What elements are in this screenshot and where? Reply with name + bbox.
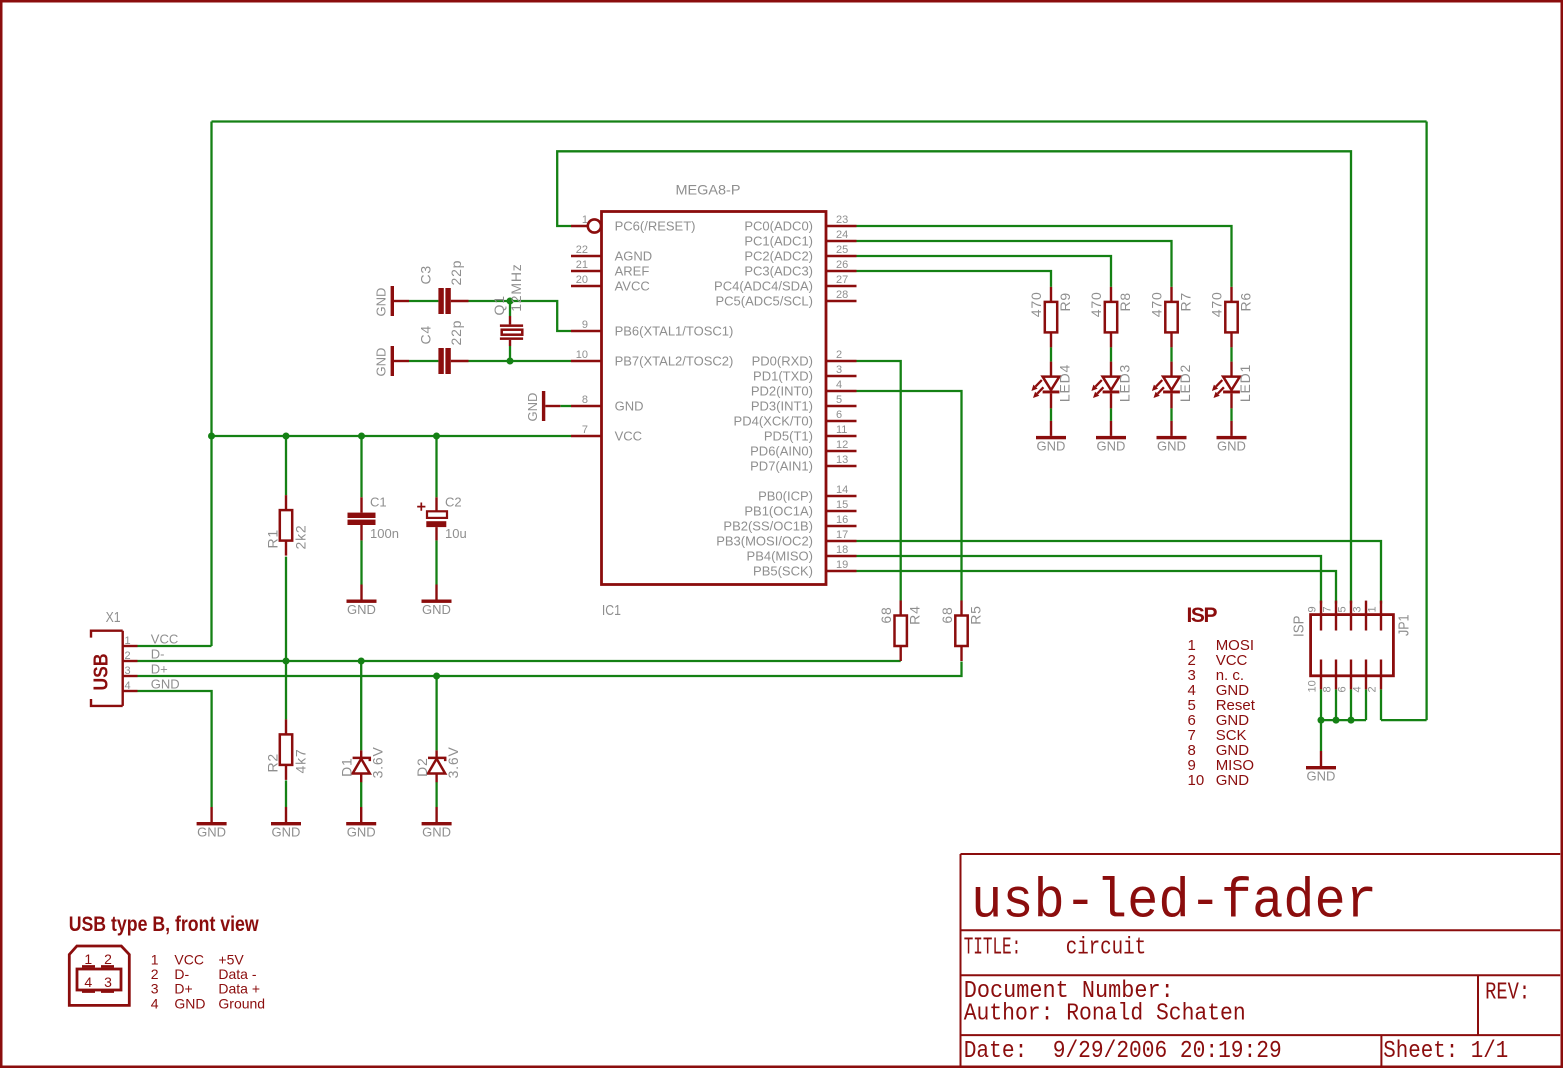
svg-text:C2: C2 <box>445 495 462 510</box>
IC1 pin 10 PB7(XTAL2/TOSC2) <box>571 349 733 369</box>
svg-text:+5V: +5V <box>218 951 244 967</box>
svg-text:GND: GND <box>1307 769 1336 784</box>
wire D- line <box>138 660 901 662</box>
title block TITLE row <box>964 935 1146 962</box>
ISP legend pin 4 GND <box>1188 682 1250 699</box>
JP1 pin 3 <box>1352 601 1367 631</box>
wire VCC top rail <box>212 120 1427 122</box>
svg-text:4: 4 <box>84 974 92 990</box>
svg-text:2: 2 <box>125 650 131 662</box>
wire C4 to XTAL2 pin10 <box>469 360 572 362</box>
svg-text:X1: X1 <box>106 609 121 626</box>
wire PD0 pin2 to R4 <box>857 361 901 601</box>
svg-text:D+: D+ <box>151 662 168 677</box>
wire D1 to GND <box>360 782 362 807</box>
svg-text:470: 470 <box>1028 291 1044 317</box>
wire VCC ISP pin2 drop <box>1380 689 1382 720</box>
svg-text:AVCC: AVCC <box>615 279 650 294</box>
crystal Q1 12MHz <box>491 263 524 346</box>
svg-text:GND: GND <box>347 825 376 840</box>
IC1 pin 8 GND <box>571 394 643 414</box>
JP1 pin 4 <box>1352 660 1367 693</box>
wire VCC to C1 <box>360 436 362 497</box>
junction crystal top <box>507 298 514 305</box>
IC1 pin 3 PD1(TXD) <box>753 364 856 384</box>
svg-text:TITLE:: TITLE: <box>964 935 1022 962</box>
ground IC pin8 gnd <box>525 391 561 422</box>
IC1 pin 6 PD4(XCK/T0) <box>734 409 857 429</box>
svg-text:PC5(ADC5/SCL): PC5(ADC5/SCL) <box>715 294 813 309</box>
svg-text:3: 3 <box>836 364 842 376</box>
resistor R9 <box>1028 287 1073 348</box>
svg-text:3.6V: 3.6V <box>445 746 461 778</box>
ISP legend pin 8 GND <box>1188 742 1250 759</box>
svg-text:19: 19 <box>836 559 848 571</box>
IC1 pin 18 PB4(MISO) <box>747 544 857 564</box>
USB legend pin 1 VCC <box>151 951 245 967</box>
USB legend pin 4 GND <box>151 995 265 1011</box>
junction VCC rail left <box>208 433 215 440</box>
svg-text:6: 6 <box>1337 686 1349 692</box>
JP1 pin 9 <box>1307 601 1322 631</box>
junction crystal bottom <box>507 358 514 365</box>
JP1 pin 8 <box>1322 660 1337 693</box>
ground C3 gnd <box>374 286 410 317</box>
svg-text:PB2(SS/OC1B): PB2(SS/OC1B) <box>723 519 813 534</box>
svg-text:PC3(ADC3): PC3(ADC3) <box>744 264 813 279</box>
svg-text:LED3: LED3 <box>1117 364 1133 402</box>
svg-text:20: 20 <box>576 274 588 286</box>
svg-text:21: 21 <box>576 259 588 271</box>
svg-text:11: 11 <box>836 424 847 436</box>
svg-text:16: 16 <box>836 514 848 526</box>
svg-text:C1: C1 <box>370 495 387 510</box>
svg-text:1: 1 <box>1367 606 1379 612</box>
svg-text:PB6(XTAL1/TOSC1): PB6(XTAL1/TOSC1) <box>615 324 734 339</box>
wire PC3 pin26 to R9 <box>857 271 1052 287</box>
wire R2 to GND <box>285 780 287 807</box>
title block frame <box>961 854 1561 1066</box>
junction rail R1 <box>283 433 290 440</box>
svg-text:PD2(INT0): PD2(INT0) <box>751 384 813 399</box>
resistor R8 <box>1088 287 1133 348</box>
IC1 pin 5 PD3(INT1) <box>751 394 857 414</box>
svg-text:PB5(SCK): PB5(SCK) <box>753 564 813 579</box>
wire VCC to C2 <box>435 436 437 497</box>
svg-text:C4: C4 <box>418 325 434 345</box>
svg-text:Ground: Ground <box>218 995 265 1011</box>
resistor R2 <box>265 719 309 780</box>
svg-text:27: 27 <box>836 274 848 286</box>
svg-text:470: 470 <box>1088 291 1104 317</box>
svg-text:2k2: 2k2 <box>293 525 309 550</box>
ground D1 gnd <box>346 807 376 840</box>
wire C1 to GND <box>360 540 362 584</box>
wire RESET pin1 to ISP pin5 <box>557 151 1351 603</box>
IC1 pin 24 PC1(ADC1) <box>744 229 856 249</box>
IC1 pin 25 PC2(ADC2) <box>744 244 856 264</box>
wire VCC to ISP pin2 <box>1381 719 1427 721</box>
wire R8 to LED3 <box>1110 347 1112 361</box>
svg-text:R9: R9 <box>1057 292 1073 312</box>
svg-text:LED2: LED2 <box>1177 364 1193 402</box>
IC1 pin 1 PC6(/RESET) <box>571 214 696 234</box>
ISP legend pin 10 GND <box>1188 772 1250 789</box>
svg-text:AREF: AREF <box>615 264 650 279</box>
svg-text:2: 2 <box>104 951 112 967</box>
ground LED4 gnd <box>1036 421 1066 454</box>
svg-text:26: 26 <box>836 259 848 271</box>
svg-text:12MHz: 12MHz <box>508 263 524 311</box>
svg-text:PB4(MISO): PB4(MISO) <box>747 549 813 564</box>
svg-text:GND: GND <box>1097 438 1126 453</box>
svg-text:PD6(AIN0): PD6(AIN0) <box>750 444 813 459</box>
svg-text:28: 28 <box>836 289 848 301</box>
wire XTAL1 crystal top <box>509 301 511 316</box>
junction rail C2 <box>433 433 440 440</box>
svg-text:3: 3 <box>151 981 159 997</box>
svg-text:4: 4 <box>1352 686 1364 692</box>
svg-text:PD7(AIN1): PD7(AIN1) <box>750 459 813 474</box>
svg-text:VCC: VCC <box>174 951 204 967</box>
svg-text:2: 2 <box>151 966 159 982</box>
LED LED4 <box>1031 362 1072 409</box>
junction D+ D2 <box>433 673 440 680</box>
wire R2 top <box>285 661 287 719</box>
svg-text:24: 24 <box>836 229 848 241</box>
svg-text:23: 23 <box>836 214 848 226</box>
svg-text:D+: D+ <box>174 981 192 997</box>
svg-text:R1: R1 <box>265 529 281 549</box>
wire D1 top <box>360 661 362 750</box>
svg-text:GND: GND <box>197 825 226 840</box>
wire LED3 to GND <box>1110 408 1112 421</box>
wire D+ line <box>138 662 962 677</box>
svg-text:22p: 22p <box>448 260 464 286</box>
resistor R4 <box>878 601 923 662</box>
svg-text:8: 8 <box>582 394 588 406</box>
JP1 pin 1 <box>1367 601 1382 631</box>
ISP legend pin 9 MISO <box>1188 757 1255 774</box>
svg-text:12: 12 <box>836 439 848 451</box>
svg-text:D-: D- <box>174 966 189 982</box>
IC1 pin 28 PC5(ADC5/SCL) <box>715 289 856 309</box>
IC1 pin 4 PD2(INT0) <box>751 379 857 399</box>
JP1 pin 7 <box>1322 601 1337 631</box>
junction ISP gnd 2 <box>1333 717 1340 724</box>
ground D2 gnd <box>422 807 452 840</box>
wire R7 to LED2 <box>1170 347 1172 361</box>
svg-text:ISP: ISP <box>1291 616 1308 638</box>
svg-text:22p: 22p <box>448 320 464 346</box>
svg-text:GND: GND <box>1037 438 1066 453</box>
svg-text:R6: R6 <box>1238 292 1254 312</box>
svg-text:GND: GND <box>1217 438 1246 453</box>
ISP legend pin 5 Reset <box>1188 697 1256 714</box>
IC1 pin 7 VCC <box>571 424 642 444</box>
junction ISP gnd 1 <box>1318 717 1325 724</box>
wire ISP pin6 drop <box>1350 689 1352 720</box>
svg-text:68: 68 <box>939 606 955 623</box>
resistor R6 <box>1209 287 1254 348</box>
svg-text:14: 14 <box>836 484 848 496</box>
ground ISP gnd <box>1306 751 1336 784</box>
svg-text:22: 22 <box>576 244 588 256</box>
IC1 pin 16 PB2(SS/OC1B) <box>723 514 856 534</box>
svg-text:3: 3 <box>125 665 131 677</box>
ground R2 gnd <box>271 807 301 840</box>
svg-text:Data +: Data + <box>218 981 260 997</box>
svg-text:Author: Ronald Schaten: Author: Ronald Schaten <box>964 1001 1246 1028</box>
svg-text:68: 68 <box>878 606 894 623</box>
X1 pin 2 D- <box>123 647 165 663</box>
svg-text:MEGA8-P: MEGA8-P <box>676 182 741 198</box>
svg-text:IC1: IC1 <box>602 602 621 619</box>
ground LED1 gnd <box>1217 421 1247 454</box>
svg-text:Sheet: 1/1: Sheet: 1/1 <box>1383 1038 1508 1065</box>
wire SCK pin19 to ISP7 <box>857 571 1337 604</box>
svg-text:GND: GND <box>174 995 205 1011</box>
svg-text:1: 1 <box>582 214 588 226</box>
wire GND to C3 <box>409 300 438 302</box>
ISP legend pin 2 VCC <box>1188 652 1248 669</box>
capacitor C4 22p <box>418 320 469 374</box>
wire MISO pin18 to ISP9 <box>857 556 1322 604</box>
svg-text:R4: R4 <box>907 605 923 625</box>
X1 pin 3 D+ <box>123 662 168 678</box>
svg-text:GND: GND <box>422 602 451 617</box>
svg-text:25: 25 <box>836 244 848 256</box>
svg-text:PB3(MOSI/OC2): PB3(MOSI/OC2) <box>716 534 813 549</box>
wire PD2 pin4 to R5 <box>857 391 962 601</box>
svg-text:LED4: LED4 <box>1057 364 1073 402</box>
svg-text:USB: USB <box>91 654 113 691</box>
svg-text:VCC: VCC <box>615 429 642 444</box>
junction D- D1 <box>358 658 365 665</box>
svg-text:GND: GND <box>374 288 389 317</box>
resistor R7 <box>1149 287 1194 348</box>
LED LED1 <box>1212 362 1253 409</box>
ISP legend pin 3 n. c. <box>1188 667 1245 684</box>
X1 pin 4 GND <box>123 677 180 693</box>
resistor R1 <box>265 495 309 555</box>
svg-text:6: 6 <box>836 409 842 421</box>
svg-text:1: 1 <box>151 951 159 967</box>
IC1 pin 17 PB3(MOSI/OC2) <box>716 529 856 549</box>
svg-text:circuit: circuit <box>1066 935 1147 962</box>
svg-text:GND: GND <box>525 393 540 422</box>
svg-text:Date: 9/29/2006 20:19:29: Date: 9/29/2006 20:19:29 <box>964 1038 1282 1065</box>
svg-text:3.6V: 3.6V <box>370 746 386 778</box>
wire GND to C4 <box>409 360 438 362</box>
JP1 pin 6 <box>1337 660 1352 693</box>
svg-text:LED1: LED1 <box>1237 364 1253 402</box>
svg-text:4: 4 <box>151 995 159 1011</box>
JP1 pin 2 <box>1367 660 1382 693</box>
svg-text:4: 4 <box>125 680 131 692</box>
junction ISP gnd 3 <box>1348 717 1355 724</box>
IC1 pin 13 PD7(AIN1) <box>750 454 856 474</box>
wire LED1 to GND <box>1230 408 1232 421</box>
LED LED2 <box>1152 362 1193 409</box>
wire R6 to LED1 <box>1230 347 1232 361</box>
svg-text:D-: D- <box>151 647 165 662</box>
svg-text:8: 8 <box>1322 686 1334 692</box>
IC1 pin 26 PC3(ADC3) <box>744 259 856 279</box>
svg-text:PB0(ICP): PB0(ICP) <box>758 489 813 504</box>
svg-text:USB type B, front view: USB type B, front view <box>69 913 260 936</box>
svg-text:D1: D1 <box>339 757 355 777</box>
svg-text:3: 3 <box>1352 606 1364 612</box>
svg-text:PB1(OC1A): PB1(OC1A) <box>744 504 813 519</box>
wire MOSI pin17 to ISP1 <box>857 541 1382 604</box>
wire R1 to D- line <box>285 557 287 661</box>
svg-text:7: 7 <box>1322 606 1334 612</box>
ISP header JP1 body <box>1291 615 1413 676</box>
svg-text:D2: D2 <box>414 757 430 777</box>
svg-text:10: 10 <box>1188 772 1205 789</box>
svg-text:470: 470 <box>1149 291 1165 317</box>
wire ISP GND bus <box>1321 719 1366 721</box>
svg-text:R8: R8 <box>1117 292 1133 312</box>
wire USB pin1 to VCC <box>138 645 212 647</box>
IC1 pin 11 PD5(T1) <box>764 424 857 444</box>
svg-text:GND: GND <box>1216 772 1250 789</box>
svg-text:1: 1 <box>84 951 92 967</box>
svg-text:PD4(XCK/T0): PD4(XCK/T0) <box>734 414 813 429</box>
ground C4 gnd <box>374 346 410 377</box>
ground USB shield gnd <box>197 807 227 840</box>
capacitor C2 10u <box>417 495 467 542</box>
ISP legend pin 7 SCK <box>1188 727 1247 744</box>
USB legend pin 2 D- <box>151 966 257 982</box>
IC1 pin 12 PD6(AIN0) <box>750 439 856 459</box>
svg-text:13: 13 <box>836 454 848 466</box>
ground C1 gnd <box>347 585 377 618</box>
svg-text:PC0(ADC0): PC0(ADC0) <box>744 219 813 234</box>
svg-text:R5: R5 <box>968 605 984 625</box>
svg-text:10u: 10u <box>445 526 467 541</box>
wire PC0 pin23 to R6 <box>857 226 1232 287</box>
wire PC1 pin24 to R7 <box>857 241 1172 287</box>
svg-text:470: 470 <box>1209 291 1225 317</box>
wire VCC right vertical <box>1425 122 1427 721</box>
IC1 pin 14 PB0(ICP) <box>758 484 856 504</box>
svg-text:ISP: ISP <box>1187 604 1218 627</box>
wire VCC to R1 <box>285 436 287 495</box>
svg-text:JP1: JP1 <box>1396 615 1413 637</box>
svg-text:AGND: AGND <box>615 249 653 264</box>
IC1 pin 21 AREF <box>571 259 649 279</box>
svg-text:Q1: Q1 <box>491 295 507 315</box>
wire R9 to LED4 <box>1050 347 1052 361</box>
svg-text:9: 9 <box>1307 606 1319 612</box>
wire ISP pin4 drop <box>1365 689 1367 720</box>
IC1 pin 22 AGND <box>571 244 652 264</box>
wire USB pin4 to GND <box>138 691 212 807</box>
wire D2 to GND <box>435 782 437 807</box>
svg-text:PD3(INT1): PD3(INT1) <box>751 399 813 414</box>
svg-text:GND: GND <box>615 399 644 414</box>
wire VCC left vertical <box>210 122 212 647</box>
ground C2 gnd <box>422 585 452 618</box>
capacitor C1 100n <box>348 495 399 542</box>
wire C3 to XTAL1 pin9 <box>469 301 572 331</box>
wire GND to IC pin8 <box>560 405 571 407</box>
IC1 pin 15 PB1(OC1A) <box>744 499 856 519</box>
IC1 pin 2 PD0(RXD) <box>752 349 857 369</box>
IC1 pin 20 AVCC <box>571 274 650 294</box>
svg-text:18: 18 <box>836 544 848 556</box>
svg-text:PD5(T1): PD5(T1) <box>764 429 813 444</box>
svg-text:7: 7 <box>582 424 588 436</box>
svg-text:R2: R2 <box>265 753 281 773</box>
IC1 pin 27 PC4(ADC4/SDA) <box>714 274 856 294</box>
svg-text:Data -: Data - <box>218 966 256 982</box>
wire C2 to GND <box>435 540 437 584</box>
IC1 pin 23 PC0(ADC0) <box>744 214 856 234</box>
IC1 pin 9 PB6(XTAL1/TOSC1) <box>571 319 733 339</box>
IC IC1 MEGA8-P body <box>602 182 827 620</box>
USB legend pin 3 D+ <box>151 981 260 997</box>
svg-text:GND: GND <box>347 602 376 617</box>
USB connector X1 <box>91 609 123 706</box>
svg-text:R7: R7 <box>1178 292 1194 312</box>
ground LED3 gnd <box>1096 421 1126 454</box>
svg-text:PC2(ADC2): PC2(ADC2) <box>744 249 813 264</box>
svg-text:REV:: REV: <box>1485 979 1530 1006</box>
wire PC2 pin25 to R8 <box>857 256 1112 287</box>
svg-text:17: 17 <box>836 529 848 541</box>
capacitor C3 22p <box>418 260 469 314</box>
svg-text:10: 10 <box>1307 680 1319 692</box>
svg-text:4k7: 4k7 <box>293 749 309 774</box>
wire ISP pin8 drop <box>1335 689 1337 720</box>
JP1 pin 5 <box>1337 601 1352 631</box>
svg-text:PC4(ADC4/SDA): PC4(ADC4/SDA) <box>714 279 813 294</box>
svg-text:GND: GND <box>272 825 301 840</box>
svg-text:GND: GND <box>374 348 389 377</box>
svg-text:PD1(TXD): PD1(TXD) <box>753 369 813 384</box>
svg-text:PC1(ADC1): PC1(ADC1) <box>744 234 813 249</box>
zener diode D2 <box>414 746 461 782</box>
resistor R5 <box>939 601 984 662</box>
wire VCC horizontal rail <box>212 435 572 437</box>
svg-text:100n: 100n <box>370 526 399 541</box>
svg-text:GND: GND <box>151 677 180 692</box>
svg-text:10: 10 <box>576 349 588 361</box>
svg-text:GND: GND <box>1157 438 1186 453</box>
zener diode D1 <box>339 746 386 782</box>
svg-text:PD0(RXD): PD0(RXD) <box>752 354 813 369</box>
ISP legend pin 6 GND <box>1188 712 1250 729</box>
svg-text:GND: GND <box>422 825 451 840</box>
LED LED3 <box>1091 362 1132 409</box>
svg-text:1: 1 <box>125 635 131 647</box>
svg-text:usb-led-fader: usb-led-fader <box>971 870 1377 934</box>
wire XTAL2 crystal bottom <box>509 346 511 361</box>
svg-text:3: 3 <box>104 974 112 990</box>
JP1 pin 10 <box>1307 660 1322 693</box>
svg-text:5: 5 <box>1337 606 1349 612</box>
X1 pin 1 VCC <box>123 632 179 648</box>
junction D- R1R2 <box>283 658 290 665</box>
wire ISP pin9 drop <box>1320 689 1322 720</box>
wire LED2 to GND <box>1170 408 1172 421</box>
ground LED2 gnd <box>1157 421 1187 454</box>
svg-text:PB7(XTAL2/TOSC2): PB7(XTAL2/TOSC2) <box>615 354 734 369</box>
USB type B connector drawing <box>69 946 129 1005</box>
